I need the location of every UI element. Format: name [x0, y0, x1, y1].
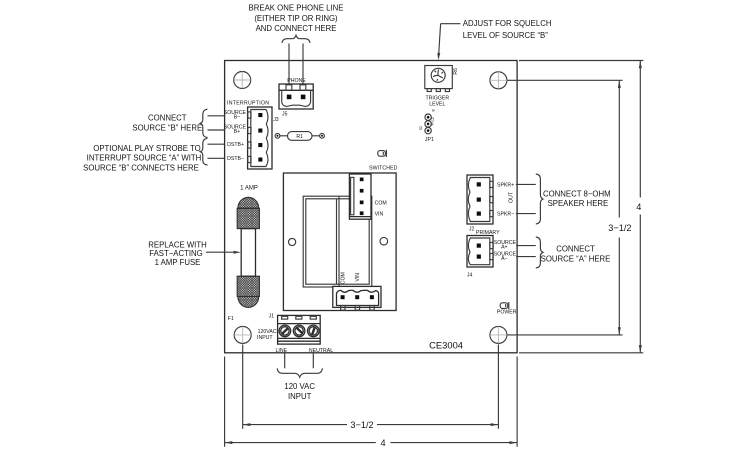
leader source A+ [516, 245, 536, 247]
svg-text:JP1: JP1 [425, 137, 434, 143]
dimension 3-1/2 right [608, 80, 631, 335]
brace source B pair [200, 109, 207, 137]
svg-text:C2: C2 [431, 117, 435, 121]
svg-text:4: 4 [380, 438, 385, 448]
svg-text:J1: J1 [269, 314, 275, 320]
svg-text:3−1/2: 3−1/2 [608, 223, 631, 233]
svg-text:SPKR−: SPKR− [497, 212, 514, 218]
note: optional play strobe [83, 144, 201, 173]
svg-text:B+: B+ [234, 129, 241, 135]
svg-text:F1: F1 [228, 316, 234, 322]
arrow to fuse [206, 251, 236, 253]
relay output connector (COM/VIN 3-pin) [333, 286, 381, 310]
wire line [284, 353, 286, 368]
svg-text:DSTB+: DSTB+ [227, 142, 244, 148]
CE mark power LED [500, 302, 509, 309]
svg-text:BREAK ONE PHONE LINE: BREAK ONE PHONE LINE [249, 4, 344, 13]
svg-text:CONNECT: CONNECT [148, 114, 187, 123]
svg-text:LEVEL OF SOURCE “B”: LEVEL OF SOURCE “B” [463, 31, 548, 40]
dimension extension lines bottom [224, 357, 226, 447]
screw 2 [293, 325, 305, 337]
resistor R1 [275, 132, 324, 141]
svg-text:B−: B− [234, 114, 241, 120]
brace 120VAC input [277, 368, 322, 377]
svg-text:SPKR+: SPKR+ [497, 182, 514, 188]
fuse F1 body [228, 186, 260, 323]
module hole right [380, 237, 388, 245]
svg-text:A+: A+ [501, 244, 508, 250]
svg-text:NEUTRAL: NEUTRAL [309, 348, 333, 354]
svg-text:OUT: OUT [509, 191, 515, 203]
svg-text:ADJUST FOR SQUELCH: ADJUST FOR SQUELCH [463, 19, 552, 28]
svg-text:SOURCE “A” HERE: SOURCE “A” HERE [541, 255, 611, 264]
brace source A [536, 237, 543, 268]
wire neutral [312, 353, 314, 368]
wire ring to J5 pin2 [302, 44, 304, 97]
svg-text:INTERRUPTION: INTERRUPTION [227, 100, 269, 106]
leader to R6 [441, 23, 461, 25]
svg-text:A−: A− [501, 256, 508, 262]
mounting hole bottom-right [490, 326, 507, 343]
mounting hole top-left [234, 72, 251, 89]
note: break one phone line annotation [249, 4, 344, 34]
screw 3 [308, 325, 320, 337]
module hole left [289, 238, 296, 245]
svg-text:J3: J3 [273, 117, 279, 123]
svg-text:(EITHER TIP OR RING): (EITHER TIP OR RING) [254, 14, 338, 23]
svg-text:FAST−ACTING: FAST−ACTING [149, 249, 203, 258]
CE mark near switched [378, 150, 387, 157]
dimension 4 bottom [225, 438, 517, 448]
svg-text:R6: R6 [453, 68, 459, 75]
leader line SOURCE B+ [208, 129, 225, 131]
svg-text:VIN: VIN [355, 273, 361, 282]
connector J1 power input [269, 314, 321, 345]
svg-text:CE3004: CE3004 [429, 340, 463, 351]
board outline CE3004 PCB [225, 61, 517, 353]
svg-text:DSTB−: DSTB− [227, 156, 244, 162]
leader SPKR+ [516, 183, 536, 185]
brace speaker [536, 174, 543, 224]
leader line DSTB- [208, 157, 225, 159]
svg-text:OPTIONAL PLAY STROBE TO: OPTIONAL PLAY STROBE TO [93, 144, 200, 153]
svg-text:PHONE: PHONE [287, 78, 306, 84]
connector J5 phone [279, 78, 313, 117]
svg-text:SWITCHED: SWITCHED [369, 165, 398, 171]
wire tip to J5 pin1 [288, 44, 290, 97]
svg-text:SOURCE “B” CONNECTS HERE: SOURCE “B” CONNECTS HERE [83, 163, 199, 172]
svg-text:4: 4 [636, 202, 641, 212]
transformer block [303, 196, 372, 287]
leader line SOURCE B- [208, 115, 225, 117]
svg-text:INPUT: INPUT [288, 392, 312, 401]
svg-text:J2: J2 [469, 226, 475, 232]
dimension extension lines right [519, 60, 643, 62]
leader line DSTB+ [208, 143, 225, 145]
connector J2 speaker output [467, 175, 493, 232]
svg-text:CONNECT 8−OHM: CONNECT 8−OHM [543, 189, 611, 198]
note: replace with fast-acting fuse [148, 240, 206, 267]
svg-text:LEVEL: LEVEL [429, 101, 445, 107]
svg-text:SPEAKER HERE: SPEAKER HERE [548, 199, 609, 208]
svg-text:AND CONNECT HERE: AND CONNECT HERE [256, 24, 337, 33]
trimmer R6 trigger level [425, 66, 459, 92]
svg-text:LINE: LINE [276, 348, 288, 354]
dimension 4 right [636, 61, 642, 353]
svg-text:REPLACE WITH: REPLACE WITH [148, 240, 206, 249]
svg-text:POWER: POWER [497, 309, 517, 315]
connector J4 source A input [467, 236, 493, 279]
svg-text:S2: S2 [419, 126, 423, 130]
note: connect source B here [132, 114, 202, 133]
svg-text:120 VAC: 120 VAC [284, 382, 315, 391]
jumper JP1 [419, 109, 435, 143]
relay/transformer module outline [283, 173, 396, 311]
svg-text:VIN: VIN [375, 212, 384, 218]
svg-text:1 AMP: 1 AMP [240, 186, 258, 192]
svg-text:INTERRUPT SOURCE “A” WITH: INTERRUPT SOURCE “A” WITH [87, 154, 202, 163]
svg-text:COM: COM [375, 201, 387, 207]
svg-text:CONNECT: CONNECT [556, 245, 595, 254]
mounting hole top-right [490, 72, 507, 89]
switched output connector [349, 174, 371, 219]
connector J3 interruption terminal [248, 107, 279, 169]
svg-text:INPUT: INPUT [257, 335, 273, 341]
note: adjust for squelch [463, 19, 552, 40]
svg-text:COM: COM [341, 272, 347, 284]
svg-text:SOURCE “B” HERE: SOURCE “B” HERE [132, 123, 202, 132]
leader SPKR- [516, 213, 536, 215]
svg-text:R1: R1 [296, 134, 303, 140]
brace over phone wires [282, 35, 310, 43]
mounting hole bottom-left [234, 326, 251, 343]
brace DSTB pair [200, 138, 207, 165]
dimension 3-1/2 bottom [243, 420, 499, 430]
svg-text:3−1/2: 3−1/2 [350, 420, 373, 430]
svg-text:J5: J5 [282, 112, 288, 118]
svg-text:J4: J4 [467, 272, 473, 278]
leader source A- [516, 256, 536, 258]
screw 1 [279, 325, 291, 337]
svg-text:1 AMP FUSE: 1 AMP FUSE [155, 258, 201, 267]
